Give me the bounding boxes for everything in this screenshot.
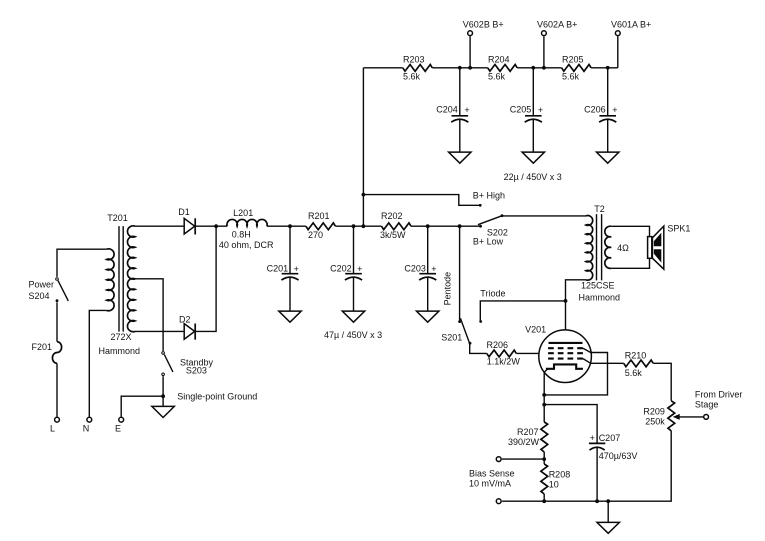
ground C203 bbox=[417, 311, 439, 322]
switch S202 B+ select bbox=[473, 204, 508, 247]
capacitor C204 bbox=[436, 68, 469, 152]
node triode tee bbox=[564, 299, 568, 303]
svg-text:5.6k: 5.6k bbox=[403, 71, 421, 81]
svg-text:D1: D1 bbox=[178, 207, 190, 217]
svg-text:L201: L201 bbox=[233, 208, 253, 218]
svg-text:B+ High: B+ High bbox=[473, 191, 505, 201]
svg-text:5.6k: 5.6k bbox=[625, 368, 643, 378]
wire R207 to R208 bbox=[543, 452, 545, 464]
svg-text:5.6k: 5.6k bbox=[562, 71, 580, 81]
svg-text:0.8H: 0.8H bbox=[232, 229, 251, 239]
svg-text:+: + bbox=[357, 264, 362, 274]
terminal bottom rail bbox=[496, 499, 501, 504]
wire T201 center tap bbox=[135, 279, 163, 351]
tube cathode bbox=[546, 364, 583, 368]
transformer T201 primary winding bbox=[107, 249, 114, 311]
ground C206 bbox=[597, 152, 619, 163]
svg-text:+: + bbox=[612, 105, 617, 115]
wire fuse to L bbox=[56, 363, 58, 416]
svg-text:F201: F201 bbox=[32, 342, 53, 352]
svg-text:V602A B+: V602A B+ bbox=[537, 19, 577, 29]
node pentode feed bbox=[458, 224, 462, 228]
switch S203 Standby bbox=[162, 352, 214, 376]
svg-text:10 mV/mA: 10 mV/mA bbox=[469, 479, 511, 489]
svg-text:+: + bbox=[538, 105, 543, 115]
svg-text:Stage: Stage bbox=[695, 400, 719, 410]
resistor R203 bbox=[403, 65, 432, 72]
resistor R202 bbox=[382, 223, 411, 230]
wire D1 to main line bbox=[195, 225, 227, 227]
wire main B+ line R202 to S202 bbox=[411, 225, 481, 227]
diode D1 bbox=[178, 207, 195, 234]
svg-text:C201: C201 bbox=[267, 264, 289, 274]
svg-text:R210: R210 bbox=[625, 350, 647, 360]
wire g1 to R210 bbox=[583, 359, 591, 364]
terminal L bbox=[55, 417, 60, 422]
svg-text:Bias Sense: Bias Sense bbox=[469, 469, 515, 479]
svg-text:4Ω: 4Ω bbox=[617, 243, 629, 253]
svg-text:47µ / 450V x 3: 47µ / 450V x 3 bbox=[324, 330, 382, 340]
node R208 bottom bbox=[542, 499, 546, 503]
svg-text:B+ Low: B+ Low bbox=[473, 237, 504, 247]
terminal E bbox=[119, 417, 124, 422]
svg-text:R203: R203 bbox=[403, 55, 425, 65]
wire R210 to R209 bbox=[653, 363, 671, 401]
svg-text:125CSE: 125CSE bbox=[581, 281, 615, 291]
transformer T2 secondary winding bbox=[605, 226, 611, 268]
potentiometer R209 bbox=[668, 401, 675, 431]
svg-text:Pentode: Pentode bbox=[442, 272, 452, 306]
svg-text:V602B B+: V602B B+ bbox=[463, 19, 504, 29]
wire main B+ line L201 to R201 bbox=[267, 225, 306, 227]
wire S204 to fuse bbox=[56, 302, 58, 341]
wire S202 to T2 bbox=[502, 215, 586, 217]
svg-text:D2: D2 bbox=[179, 314, 191, 324]
svg-text:Single-point Ground: Single-point Ground bbox=[177, 392, 257, 402]
svg-text:C206: C206 bbox=[584, 105, 606, 115]
capacitor C207 bbox=[589, 433, 638, 501]
ground C201 bbox=[279, 311, 301, 322]
wire ground stem bbox=[607, 501, 609, 522]
switch S204 Power bbox=[29, 278, 69, 302]
tube grid g1 bbox=[548, 358, 583, 360]
ground bottom bbox=[597, 522, 619, 533]
svg-text:10: 10 bbox=[549, 480, 559, 490]
wire g3 to cathode tie bbox=[583, 348, 591, 352]
svg-text:R201: R201 bbox=[308, 211, 330, 221]
svg-text:E: E bbox=[115, 423, 121, 433]
wire main B+ line R201 to R202 bbox=[335, 225, 381, 227]
wire bottom rail bbox=[502, 431, 671, 501]
node cathode g3 tie bbox=[542, 393, 546, 397]
wire S203 to ground node bbox=[162, 376, 164, 406]
svg-text:R204: R204 bbox=[488, 55, 510, 65]
svg-text:+: + bbox=[294, 264, 299, 274]
wire B+ High tap bbox=[363, 195, 480, 206]
svg-text:S203: S203 bbox=[186, 365, 207, 375]
wire T2 secondary top to speaker bbox=[611, 226, 649, 236]
tube grid g2 bbox=[548, 352, 583, 354]
svg-text:3k/5W: 3k/5W bbox=[380, 230, 406, 240]
svg-text:V601A B+: V601A B+ bbox=[611, 19, 651, 29]
wire R208 to bottom rail bbox=[543, 494, 545, 501]
wire T201 secondary top to D1 bbox=[135, 225, 184, 227]
wire bias sense tap bbox=[502, 458, 544, 460]
wire C207 top branch bbox=[544, 405, 597, 444]
svg-text:22µ / 450V x 3: 22µ / 450V x 3 bbox=[504, 172, 562, 182]
wire T2 secondary bottom to speaker bbox=[611, 258, 649, 268]
svg-text:R206: R206 bbox=[487, 340, 509, 350]
wiper R209 bbox=[679, 416, 704, 418]
wire T201 secondary bottom to D2 bbox=[135, 330, 184, 332]
svg-text:272X: 272X bbox=[110, 332, 131, 342]
svg-text:T201: T201 bbox=[107, 213, 128, 223]
node C201 bbox=[288, 224, 292, 228]
svg-text:R207: R207 bbox=[517, 427, 539, 437]
svg-text:N: N bbox=[83, 423, 90, 433]
svg-text:C202: C202 bbox=[330, 264, 352, 274]
wire triode tap bbox=[480, 301, 565, 322]
node rectifier junction bbox=[214, 224, 218, 228]
speaker SPK1 bbox=[648, 223, 691, 269]
svg-text:V201: V201 bbox=[525, 325, 546, 335]
capacitor C201 bbox=[267, 226, 299, 311]
diode D2 bbox=[179, 314, 195, 339]
svg-text:C204: C204 bbox=[436, 105, 458, 115]
node C202 bbox=[352, 224, 356, 228]
svg-text:Triode: Triode bbox=[480, 289, 505, 299]
wire pentode feed bbox=[459, 226, 461, 322]
svg-text:Hammond: Hammond bbox=[99, 346, 141, 356]
svg-text:T2: T2 bbox=[594, 204, 605, 214]
svg-text:S204: S204 bbox=[29, 291, 50, 301]
transformer T2 primary winding bbox=[586, 216, 593, 281]
wire T201 primary bottom lead bbox=[89, 310, 106, 416]
transformer T201 secondary winding bbox=[127, 226, 135, 332]
svg-text:C207: C207 bbox=[599, 433, 621, 443]
node dots top rail bbox=[458, 66, 462, 70]
svg-text:C205: C205 bbox=[510, 105, 532, 115]
wire T2 primary bottom to plate bbox=[566, 280, 587, 343]
ground C202 bbox=[342, 311, 364, 322]
transformer T201 core bbox=[119, 226, 123, 332]
svg-text:R205: R205 bbox=[562, 55, 584, 65]
resistor R204 bbox=[488, 65, 517, 72]
node B+ High tee bbox=[362, 193, 366, 197]
svg-text:L: L bbox=[50, 423, 55, 433]
svg-text:R209: R209 bbox=[643, 407, 665, 417]
wire D2 to junction bbox=[195, 226, 216, 331]
ground C205 bbox=[522, 152, 544, 163]
resistor R210 bbox=[624, 360, 653, 367]
switch S201 pentode/triode bbox=[441, 318, 482, 344]
terminal V601A B+ bbox=[617, 36, 619, 68]
tube grid g3 bbox=[548, 347, 583, 349]
node cathode C207 tap bbox=[542, 403, 546, 407]
wire S201 to R206 bbox=[470, 344, 487, 354]
resistor R207 bbox=[541, 422, 548, 452]
wire E to single point ground bbox=[121, 396, 163, 416]
svg-text:Hammond: Hammond bbox=[579, 292, 621, 302]
node single point ground bbox=[161, 394, 165, 398]
svg-text:Power: Power bbox=[29, 280, 55, 290]
wire cathode lead bbox=[544, 369, 548, 422]
resistor R205 bbox=[562, 65, 591, 72]
svg-text:S201: S201 bbox=[441, 332, 462, 342]
capacitor C203 bbox=[404, 226, 436, 311]
fuse F201 bbox=[52, 342, 61, 364]
terminal N bbox=[87, 417, 92, 422]
resistor R208 bbox=[541, 464, 548, 494]
svg-text:+: + bbox=[431, 264, 436, 274]
svg-text:R202: R202 bbox=[381, 211, 403, 221]
node B+ vertical bbox=[362, 224, 366, 228]
inductor L201 bbox=[227, 219, 267, 226]
tube V201 bbox=[525, 325, 591, 383]
wire R206 to tube grid bbox=[516, 352, 539, 354]
svg-text:1.1k/2W: 1.1k/2W bbox=[487, 357, 521, 367]
svg-text:+: + bbox=[590, 433, 595, 443]
terminal V602A B+ bbox=[543, 36, 545, 68]
svg-text:40 ohm, DCR: 40 ohm, DCR bbox=[219, 240, 274, 250]
transformer T2 core bbox=[597, 214, 602, 280]
resistor R206 bbox=[487, 350, 516, 357]
resistor R201 bbox=[306, 223, 335, 230]
node ground stem bbox=[606, 499, 610, 503]
ground C204 bbox=[449, 152, 471, 163]
svg-text:C203: C203 bbox=[404, 264, 426, 274]
capacitor C205 bbox=[510, 68, 543, 152]
svg-text:470µ/63V: 470µ/63V bbox=[599, 451, 638, 461]
capacitor C206 bbox=[584, 68, 617, 152]
terminal bias sense bbox=[496, 457, 501, 462]
wire left vertical feed to R203 bbox=[362, 68, 364, 226]
terminal from driver stage bbox=[704, 415, 709, 420]
ground single-point bbox=[152, 406, 174, 417]
svg-text:R208: R208 bbox=[549, 470, 571, 480]
node C203 bbox=[426, 224, 430, 228]
node C207 bottom bbox=[595, 499, 599, 503]
svg-text:250k: 250k bbox=[645, 416, 665, 426]
svg-text:5.6k: 5.6k bbox=[488, 71, 506, 81]
node bias sense bbox=[542, 457, 546, 461]
terminal V602B B+ bbox=[469, 36, 471, 68]
tube plate bbox=[549, 342, 583, 344]
wire top B+ rail bbox=[363, 67, 617, 69]
capacitor C202 bbox=[330, 226, 362, 311]
svg-text:270: 270 bbox=[308, 230, 323, 240]
svg-text:SPK1: SPK1 bbox=[667, 223, 690, 233]
svg-text:From Driver: From Driver bbox=[695, 390, 743, 400]
svg-text:390/2W: 390/2W bbox=[508, 437, 540, 447]
svg-text:+: + bbox=[464, 105, 469, 115]
wire T201 primary top lead bbox=[57, 249, 107, 277]
